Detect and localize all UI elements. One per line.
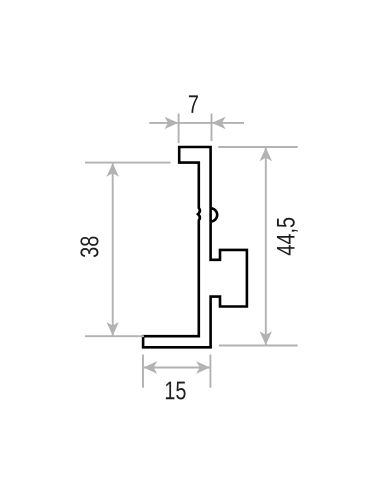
dim 15: left arrowhead (points left) [143, 361, 157, 373]
dim 7: right tail line [212, 122, 245, 124]
profile outline [143, 147, 247, 347]
dim 44,5: dimension line [265, 147, 267, 346]
dim 7: left tail line [149, 122, 178, 124]
dim 44,5: top extension line [218, 146, 297, 148]
dim 15: label [166, 382, 186, 400]
dim 7: right arrowhead (points left) [212, 117, 226, 129]
dim 7: middle line [179, 122, 212, 124]
dim 38: bottom arrowhead (points down) [107, 322, 119, 336]
dim 38: top arrowhead (points up) [107, 163, 119, 177]
dim 44,5: top arrowhead (points up) [260, 147, 272, 161]
dim 7: label [189, 95, 198, 113]
dim 7: left arrowhead (points right) [165, 117, 179, 129]
dim 44,5: bottom arrowhead (points down) [260, 331, 272, 345]
dim 7: right extension line [211, 114, 213, 142]
dim 15: right arrowhead (points right) [196, 361, 210, 373]
dim 44,5: label (rotated) [277, 218, 298, 255]
dim 38: label (rotated) [80, 237, 98, 258]
dim 7: left extension line [178, 114, 180, 144]
dim 15: right extension line [209, 355, 211, 388]
dim 44,5: bottom extension line [219, 345, 298, 347]
bump (half-round rib) on stem right edge [211, 208, 218, 221]
dim 15: dimension line [143, 367, 210, 369]
dim 38: top extension line [85, 162, 171, 164]
dim 38: dimension line [112, 163, 114, 337]
dim 38: bottom extension line [85, 335, 144, 337]
dim 15: left extension line [142, 355, 144, 388]
